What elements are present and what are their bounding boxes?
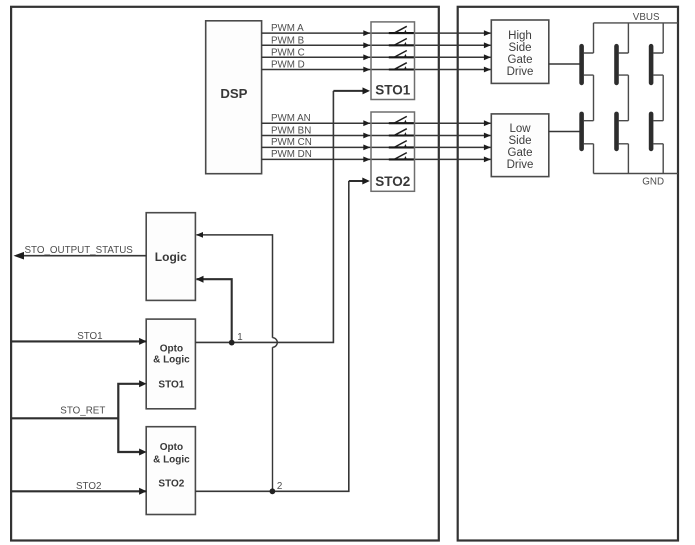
switch S2b — [395, 129, 408, 136]
wire switch contact segments (dark overlays inside switch banks) — [389, 32, 414, 34]
svg-text:GND: GND — [642, 177, 664, 188]
switch S2d — [395, 153, 408, 160]
wire STO1 input — [11, 331, 147, 345]
svg-text:STO2: STO2 — [375, 174, 410, 189]
svg-text:PWM C: PWM C — [271, 47, 305, 58]
svg-text:& Logic: & Logic — [153, 354, 190, 365]
svg-text:STO2: STO2 — [76, 481, 101, 492]
svg-text:STO_OUTPUT_STATUS: STO_OUTPUT_STATUS — [25, 245, 134, 256]
svg-text:Low: Low — [509, 123, 531, 135]
wire PWM CN — [262, 146, 491, 148]
wire PWM C — [262, 56, 491, 58]
svg-text:Side: Side — [508, 135, 531, 147]
svg-text:PWM B: PWM B — [271, 35, 305, 46]
block Logic — [146, 213, 195, 301]
svg-text:STO1: STO1 — [375, 83, 411, 98]
wire low-side gate feed — [549, 131, 580, 133]
svg-text:PWM BN: PWM BN — [271, 125, 311, 136]
svg-text:Logic: Logic — [155, 250, 187, 264]
switch S1c — [395, 51, 408, 58]
block STO2 switch bank — [371, 112, 415, 191]
node 2 junction — [270, 488, 276, 494]
svg-text:& Logic: & Logic — [153, 454, 190, 465]
switch S2c — [395, 141, 408, 148]
wire PWM B — [262, 44, 491, 46]
svg-text:Drive: Drive — [507, 159, 534, 171]
transistor Q1 (phase A high side) — [582, 46, 594, 83]
transistor Q3 (phase C high side) — [651, 46, 663, 83]
switch S1a — [395, 26, 408, 33]
wire PWM A (DSP to STO1 switch to High Side Gate Drive) — [262, 32, 491, 34]
transistor Q4 (phase A low side) — [582, 114, 594, 149]
transistor Q5 (phase B low side) — [617, 114, 629, 149]
wire Opto STO2 output to STO2 switch bank — [195, 181, 348, 491]
wire Opto STO1 output to STO1 switch bank — [195, 91, 333, 343]
wire phase A leg — [593, 23, 595, 174]
svg-text:STO_RET: STO_RET — [60, 405, 105, 416]
svg-text:Side: Side — [508, 42, 531, 54]
transistor Q2 (phase B high side) — [617, 46, 629, 83]
svg-text:PWM CN: PWM CN — [271, 137, 312, 148]
svg-text:VBUS: VBUS — [633, 12, 660, 23]
block DSP U1 — [206, 21, 262, 174]
svg-text:Gate: Gate — [508, 54, 533, 66]
wire PWM AN (DSP to STO2 switch to Low Side Gate Drive) — [262, 122, 491, 124]
outer enclosure right (power stage board) — [458, 7, 678, 541]
switch S1b — [395, 39, 408, 46]
svg-text:DSP: DSP — [220, 86, 247, 101]
wire phase C leg — [662, 23, 664, 174]
wire STO_RET riser and branches to both Opto blocks — [118, 384, 140, 452]
svg-text:PWM DN: PWM DN — [271, 149, 312, 160]
wire STO_OUTPUT_STATUS output — [14, 245, 147, 260]
node 1 junction — [229, 340, 235, 346]
svg-text:Gate: Gate — [508, 147, 533, 159]
wire phase B leg — [627, 23, 629, 174]
svg-text:PWM AN: PWM AN — [271, 113, 311, 124]
svg-text:Opto: Opto — [160, 442, 183, 453]
wire high-side gate feed — [549, 63, 580, 65]
svg-text:STO2: STO2 — [158, 479, 184, 490]
transistor Q6 (phase C low side) — [651, 114, 663, 149]
block High Side Gate Drive — [491, 20, 549, 83]
wire PWM DN — [262, 158, 491, 160]
wire node2 branch to Logic (top arrow) — [197, 235, 273, 338]
wire STO2 input — [11, 481, 147, 495]
wire STO_RET input — [11, 405, 118, 418]
block STO1 switch bank — [371, 22, 415, 100]
switch S1d — [395, 63, 408, 70]
net GND rail — [594, 173, 679, 175]
wire node1 branch to Logic (bottom arrow) and riser down to node 1 — [197, 279, 232, 342]
svg-text:High: High — [508, 30, 532, 42]
wire vertical from Logic top arrow down to node 2 (with hop over node1 line) — [272, 347, 274, 491]
svg-text:1: 1 — [237, 332, 242, 343]
svg-text:2: 2 — [277, 481, 282, 492]
switch S2a — [395, 116, 408, 123]
svg-text:STO1: STO1 — [77, 331, 102, 342]
outer enclosure left (controller board) — [11, 7, 439, 541]
wire hop arc over node1 line — [273, 338, 278, 348]
svg-text:STO1: STO1 — [158, 380, 184, 391]
svg-text:Opto: Opto — [160, 343, 183, 354]
svg-text:Drive: Drive — [507, 66, 534, 78]
block Low Side Gate Drive — [491, 114, 549, 177]
net VBUS rail — [594, 22, 679, 24]
svg-text:PWM D: PWM D — [271, 60, 305, 71]
wire PWM BN — [262, 135, 491, 137]
block Opto & Logic STO2 — [146, 427, 195, 515]
block Opto & Logic STO1 — [146, 319, 195, 409]
wire PWM D — [262, 69, 491, 71]
svg-text:PWM A: PWM A — [271, 23, 304, 34]
